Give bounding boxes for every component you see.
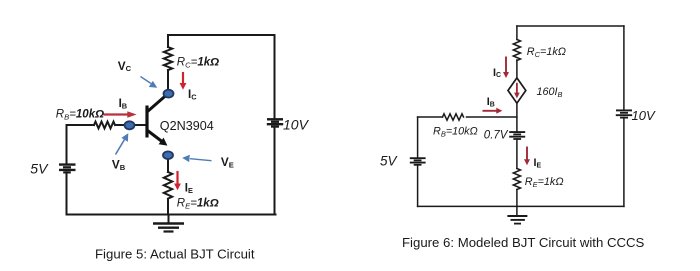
svg-text:0.7V: 0.7V bbox=[484, 130, 509, 142]
svg-text:RE=1kΩ: RE=1kΩ bbox=[525, 176, 564, 189]
svg-text:RC=1kΩ: RC=1kΩ bbox=[177, 57, 219, 70]
svg-text:5V: 5V bbox=[30, 160, 49, 176]
svg-text:10V: 10V bbox=[283, 117, 310, 133]
svg-text:Figure 5: Actual BJT Circuit: Figure 5: Actual BJT Circuit bbox=[95, 247, 255, 262]
svg-text:RC=1kΩ: RC=1kΩ bbox=[527, 46, 566, 59]
svg-text:Q2N3904: Q2N3904 bbox=[160, 119, 214, 133]
svg-text:RB=10kΩ: RB=10kΩ bbox=[56, 109, 104, 122]
svg-text:Figure 6: Modeled BJT Circuit: Figure 6: Modeled BJT Circuit with CCCS bbox=[402, 235, 645, 250]
svg-text:RB=10kΩ: RB=10kΩ bbox=[433, 126, 478, 139]
svg-text:10V: 10V bbox=[632, 108, 656, 123]
svg-text:RE=1kΩ: RE=1kΩ bbox=[177, 198, 219, 211]
svg-text:5V: 5V bbox=[380, 154, 399, 169]
